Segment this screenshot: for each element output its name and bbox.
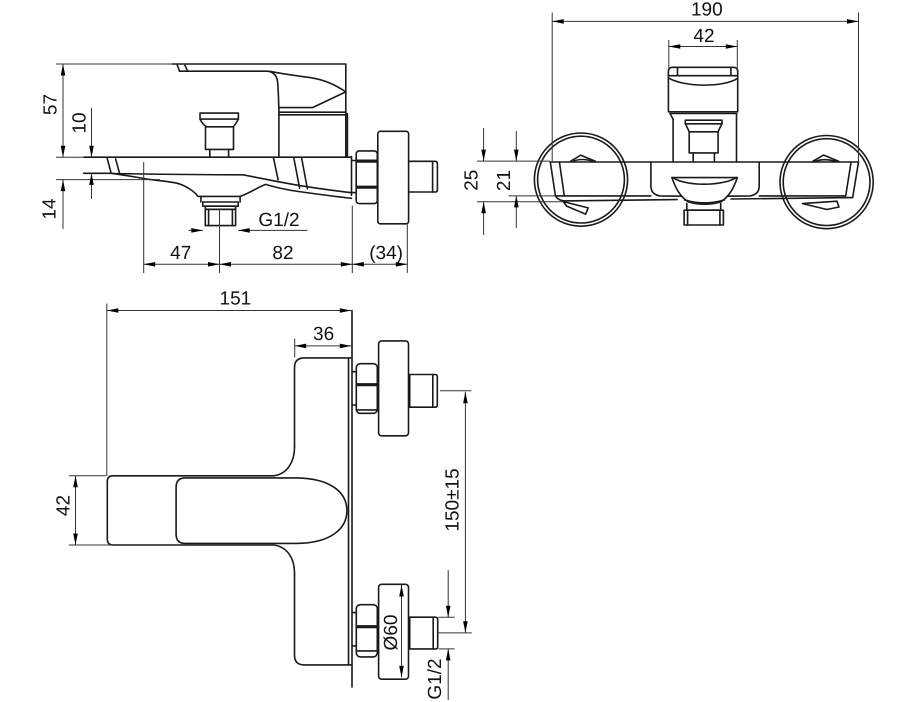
- left escutcheon circle outer: [534, 133, 627, 226]
- dim G1/2 line: [447, 570, 449, 700]
- svg-text:21: 21: [494, 170, 515, 191]
- bar left end cap: [550, 162, 564, 201]
- dim Ø60 line: [401, 585, 403, 677]
- left bottom mounting nut: [563, 202, 588, 215]
- svg-text:14: 14: [40, 198, 61, 220]
- handle bottom + back diagonal: [279, 92, 346, 108]
- handle back edge: [345, 64, 347, 92]
- knob stub front: [693, 153, 714, 162]
- outlet block inner lines: [209, 209, 233, 225]
- dim 36 line: [295, 345, 352, 347]
- dim G1/2: [189, 229, 308, 231]
- dim 25 line: [483, 128, 485, 235]
- svg-text:57: 57: [41, 94, 62, 115]
- underside far edge: [112, 174, 351, 193]
- diverter knob flange: [200, 113, 238, 119]
- cartridge housing sides: [278, 108, 280, 158]
- outlet block: [205, 209, 235, 225]
- top pipe: [352, 372, 356, 405]
- top nut: [356, 364, 377, 414]
- knob cylinder front: [689, 132, 718, 153]
- dim 150±15 line: [464, 392, 466, 633]
- left escutcheon circle inner: [538, 136, 625, 223]
- outlet cone cup arc: [674, 178, 736, 184]
- handle front outline: [668, 67, 737, 112]
- outlet ring front: [687, 203, 721, 210]
- dim 36 extension: [294, 339, 296, 358]
- spout underside silhouette: [112, 173, 201, 196]
- svg-text:Ø60: Ø60: [381, 615, 402, 651]
- right escutcheon circle outer: [780, 136, 873, 229]
- dim 57 line: [62, 64, 64, 157]
- housing hidden diagonals: [273, 157, 307, 189]
- handle inner slope: [270, 71, 346, 92]
- handle top blade: [172, 63, 345, 65]
- outlet cone bottom arcs: [688, 202, 721, 204]
- wall bar outline: [295, 358, 353, 447]
- spout tip bottom: [84, 172, 113, 174]
- knob taper: [200, 119, 238, 126]
- svg-text:G1/2: G1/2: [258, 210, 299, 231]
- top male thread: [410, 375, 438, 408]
- top pipe axis ref: [440, 390, 472, 392]
- collar band: [670, 114, 737, 120]
- body top line: [84, 156, 351, 158]
- dim extension line A left: [56, 156, 84, 158]
- svg-text:36: 36: [313, 324, 334, 345]
- svg-text:82: 82: [272, 243, 293, 264]
- handle blade underside: [180, 71, 279, 107]
- svg-text:150±15: 150±15: [443, 468, 464, 531]
- outlet cone top: [672, 177, 737, 179]
- handle top band: [668, 67, 737, 75]
- svg-text:190: 190: [691, 0, 723, 21]
- svg-text:G1/2: G1/2: [425, 658, 446, 699]
- svg-text:25: 25: [462, 170, 483, 191]
- outlet block front: [684, 210, 723, 225]
- body block sides at bar: [651, 162, 682, 196]
- dim 57 extension top: [56, 63, 172, 65]
- svg-text:10: 10: [70, 112, 91, 133]
- knob cylinder: [206, 127, 234, 150]
- dim 10 line: [91, 108, 93, 199]
- right top mounting nut: [813, 155, 839, 161]
- bottom pipe axis ref: [438, 632, 472, 634]
- underside crest curve: [240, 184, 351, 198]
- dim 14 line: [62, 180, 64, 229]
- male thread: [409, 161, 438, 192]
- body column: [673, 119, 736, 162]
- outlet ring 2: [205, 206, 235, 209]
- bottom nut: [356, 605, 377, 657]
- dim 21 line: [515, 131, 517, 228]
- svg-text:(34): (34): [369, 243, 403, 264]
- svg-text:151: 151: [220, 289, 252, 310]
- dim 42 extensions: [69, 476, 112, 545]
- knob flange front: [685, 120, 722, 124]
- bar top edge: [550, 161, 858, 163]
- knob stub: [210, 149, 229, 157]
- escutcheon disc: [378, 131, 409, 224]
- left top mounting nut: [571, 155, 596, 161]
- dim 42 extensions: [669, 40, 738, 70]
- outlet ring 1: [203, 202, 238, 206]
- svg-text:42: 42: [54, 495, 75, 516]
- wall line: [351, 311, 353, 688]
- pipe to nut: [352, 161, 357, 193]
- bottom dim extensions: [144, 162, 408, 273]
- wall nut: [356, 151, 377, 204]
- top flange: [379, 341, 409, 436]
- dim 151 line: [107, 310, 351, 312]
- right bottom mounting nut: [803, 201, 840, 209]
- bar lower front edge: [563, 198, 852, 201]
- bar end face: [351, 157, 353, 196]
- bar right end cap: [846, 162, 859, 197]
- wall bar right edge: [348, 358, 350, 665]
- knob taper front: [685, 124, 722, 132]
- spout outline with fillets: [107, 447, 294, 575]
- spout tip chamfer lines: [107, 158, 119, 173]
- dim G1/2 extensions: [439, 617, 455, 649]
- bar bottom edge: [556, 195, 846, 197]
- handle surface dip arc: [669, 78, 738, 85]
- bottom male thread: [410, 617, 438, 649]
- outlet cone sides: [672, 178, 737, 202]
- svg-text:47: 47: [170, 243, 191, 264]
- handle tip bevel ticks: [177, 65, 179, 71]
- handle plan outline: [176, 478, 347, 544]
- dim extension line B: [56, 179, 160, 181]
- dim 151 extension: [106, 304, 108, 477]
- bottom dim line: [144, 263, 408, 265]
- dim 42 line: [669, 46, 738, 48]
- dim 25/21 extensions: [477, 161, 563, 202]
- dim 190 extensions: [552, 13, 858, 163]
- outlet centerline: [219, 209, 221, 273]
- right escutcheon circle inner: [783, 139, 870, 226]
- housing collar band: [279, 112, 346, 115]
- dim 42 line: [75, 476, 77, 545]
- boss sides: [201, 196, 240, 202]
- bottom flange: [379, 584, 409, 679]
- bottom pipe: [352, 613, 356, 646]
- dim 190 line: [552, 20, 858, 22]
- svg-text:42: 42: [693, 26, 714, 47]
